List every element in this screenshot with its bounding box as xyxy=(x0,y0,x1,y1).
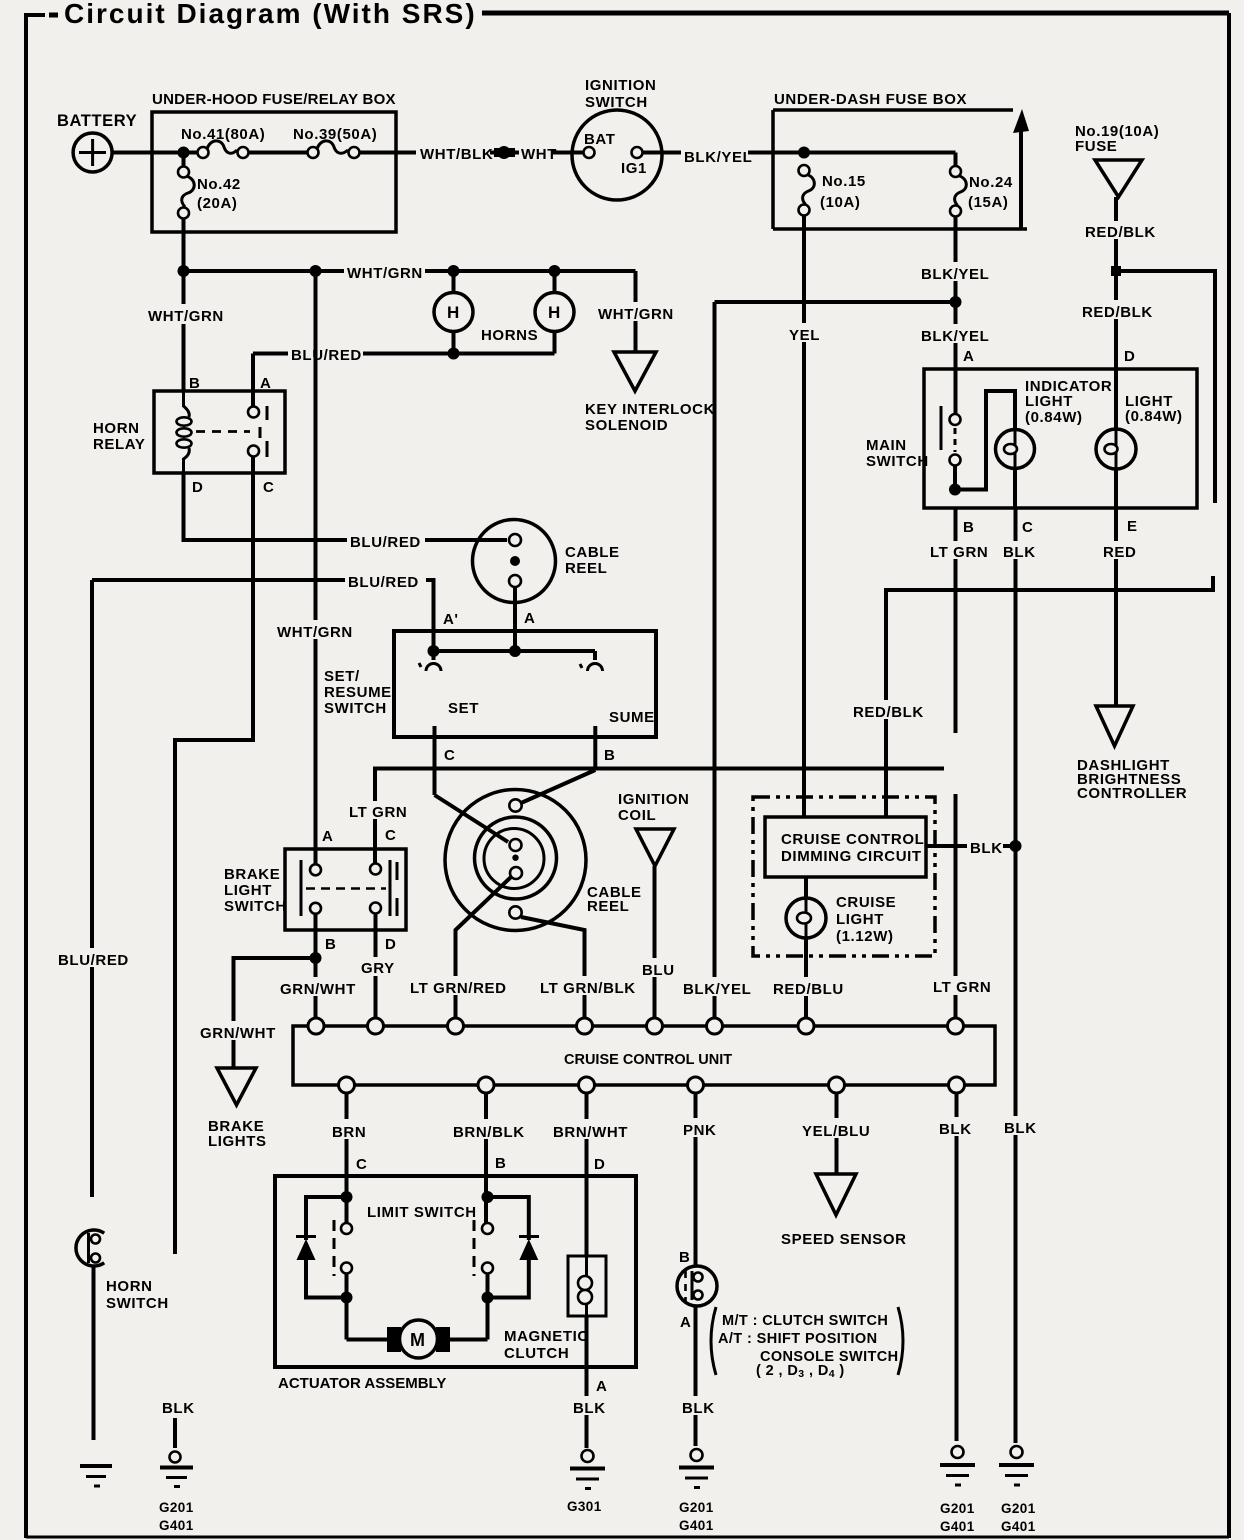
wire clutch down to G301 xyxy=(585,1316,589,1448)
svg-text:HORNS: HORNS xyxy=(481,327,538,344)
label BLK/YEL xyxy=(918,262,991,283)
svg-text:REEL: REEL xyxy=(587,898,629,915)
svg-text:No.41(80A): No.41(80A) xyxy=(181,126,265,143)
brake switch bars xyxy=(300,860,303,916)
wire LT GRN bus row xyxy=(375,769,944,865)
svg-text:PNK: PNK xyxy=(683,1122,716,1139)
label WHT/GRN xyxy=(344,261,425,282)
svg-text:BLU/RED: BLU/RED xyxy=(348,574,419,591)
svg-text:SWITCH: SWITCH xyxy=(106,1295,169,1312)
svg-text:WHT/GRN: WHT/GRN xyxy=(277,624,353,641)
label LT GRN xyxy=(930,976,991,996)
svg-text:B: B xyxy=(963,519,974,536)
wire up to contact2 node xyxy=(486,1273,490,1340)
svg-text:RED/BLK: RED/BLK xyxy=(1085,224,1156,241)
svg-text:B: B xyxy=(495,1155,506,1172)
svg-text:C: C xyxy=(1022,519,1033,536)
wire fuse 42 down to WHT/GRN node xyxy=(182,218,186,271)
svg-text:CRUISE: CRUISE xyxy=(836,894,896,911)
svg-text:WHT/GRN: WHT/GRN xyxy=(598,306,674,323)
wire coil stubs xyxy=(182,391,185,407)
battery xyxy=(57,112,137,172)
label BLK xyxy=(1000,541,1043,561)
wire horn relay C stub xyxy=(251,456,255,473)
label BLU/RED xyxy=(347,530,425,551)
wire horn relay D down, BLU/RED to cable reel xyxy=(184,473,508,540)
wire BLK/YEL down to cruise unit xyxy=(713,302,717,1019)
svg-text:REEL: REEL xyxy=(565,560,607,577)
cruise control unit box xyxy=(293,1026,995,1085)
unit top connector BLK/YEL xyxy=(707,1018,723,1034)
svg-text:FUSE: FUSE xyxy=(1075,138,1117,155)
wire horn switch to ground xyxy=(92,1266,96,1440)
unit bottom connector YEL/BLU xyxy=(829,1077,845,1093)
wire LT GRN main switch B down to cruise unit xyxy=(954,508,958,733)
svg-text:B: B xyxy=(679,1249,690,1266)
node junction BLK/YEL / fuse 15 xyxy=(798,147,810,159)
cruise control dimming circuit inner box xyxy=(765,817,926,877)
label LT GRN xyxy=(347,801,407,821)
label BLU/RED xyxy=(345,570,426,591)
horn 2 xyxy=(535,293,574,332)
svg-text:G201: G201 xyxy=(159,1500,194,1515)
horn relay dashed link xyxy=(196,430,250,433)
wire BLU/RED left drop to horn switch xyxy=(90,580,94,1197)
svg-text:G401: G401 xyxy=(940,1519,975,1534)
set/resume switch box xyxy=(324,631,656,737)
page border right xyxy=(1227,13,1231,1538)
main switch box xyxy=(866,369,1197,508)
ignition coil xyxy=(618,791,689,866)
svg-text:RED/BLK: RED/BLK xyxy=(853,704,924,721)
svg-text:A: A xyxy=(260,375,271,392)
svg-text:D: D xyxy=(594,1156,605,1173)
horn switch xyxy=(76,1230,169,1312)
svg-text:HORN: HORN xyxy=(106,1278,153,1295)
wire brake B down xyxy=(314,914,318,1020)
label RED xyxy=(1100,541,1136,561)
diode 2 branch xyxy=(488,1197,529,1240)
fuse No.42(20A) vertical xyxy=(178,153,241,219)
label BLK/YEL xyxy=(680,977,751,998)
wire battery to under-hood box xyxy=(112,151,152,155)
svg-text:SET/: SET/ xyxy=(324,668,360,685)
label BRN/BLK xyxy=(450,1119,525,1141)
svg-text:BLK/YEL: BLK/YEL xyxy=(921,266,989,283)
svg-text:LT GRN: LT GRN xyxy=(930,544,988,561)
label BLK xyxy=(967,836,1003,857)
wire BLU/RED horn bottom bus xyxy=(253,352,555,356)
unit top connector LT GRN xyxy=(948,1018,964,1034)
ground G201/G401 main switch BLK xyxy=(999,1446,1036,1534)
svg-text:G401: G401 xyxy=(1001,1519,1036,1534)
diode D1 xyxy=(296,1237,316,1261)
wire BRN/BLK to actuator xyxy=(484,1092,488,1197)
svg-text:A/T : SHIFT POSITION: A/T : SHIFT POSITION xyxy=(718,1331,877,1347)
wire PNK to clutch switch xyxy=(694,1092,698,1266)
wire BLU/RED row to set/resume A' xyxy=(92,580,434,651)
node junction horn1 xyxy=(448,265,460,277)
unit bottom connector BRN/WHT xyxy=(579,1077,595,1093)
label BLK xyxy=(1001,1116,1039,1137)
wire WHT/GRN key interlock drop xyxy=(634,271,638,352)
label WHT/GRN xyxy=(595,302,674,323)
wire light bulb bottom to E xyxy=(1114,469,1118,706)
svg-text:LIGHT: LIGHT xyxy=(1025,393,1073,410)
magnetic clutch coil xyxy=(504,1256,606,1362)
svg-text:G401: G401 xyxy=(679,1518,714,1533)
svg-text:SPEED SENSOR: SPEED SENSOR xyxy=(781,1231,907,1248)
unit bottom connector BLK xyxy=(949,1077,965,1093)
label GRN/WHT xyxy=(197,1021,276,1042)
under-hood fuse/relay box xyxy=(152,91,396,232)
wire to fuse 24 xyxy=(804,151,956,155)
svg-text:IGNITION: IGNITION xyxy=(585,77,656,94)
node junction at fuse42 wire xyxy=(178,265,190,277)
ground horn switch xyxy=(80,1466,112,1486)
fuse No.19(10A) xyxy=(1075,123,1159,197)
label BLK/YEL xyxy=(681,145,752,166)
main switch contact A xyxy=(950,414,961,425)
svg-text:A: A xyxy=(596,1378,607,1395)
node junction A' xyxy=(428,645,440,657)
wire WHT/GRN horn bus xyxy=(184,269,636,273)
brake lights triangle xyxy=(208,1068,267,1150)
wire fuse24 BLK/YEL down to main switch A xyxy=(954,216,958,419)
cable reel lower xyxy=(445,790,642,931)
node junction BLK/YEL branch xyxy=(950,296,962,308)
wire set C pin xyxy=(433,726,437,795)
svg-text:No.24: No.24 xyxy=(969,174,1013,191)
brake switch contacts xyxy=(310,864,321,875)
dashlight brightness controller xyxy=(1077,706,1187,802)
svg-text:CRUISE CONTROL UNIT: CRUISE CONTROL UNIT xyxy=(564,1052,732,1068)
node junction brake B xyxy=(310,952,322,964)
horn 1 xyxy=(434,293,473,332)
limit switch contact 2 xyxy=(474,1220,493,1276)
horn relay coil xyxy=(177,406,192,459)
svg-text:RELAY: RELAY xyxy=(93,436,145,453)
label BLK xyxy=(159,1396,196,1417)
svg-text:WHT/GRN: WHT/GRN xyxy=(347,265,423,282)
svg-text:HORN: HORN xyxy=(93,420,140,437)
node junction BRN/BLK xyxy=(482,1191,494,1203)
svg-text:BLK/YEL: BLK/YEL xyxy=(684,149,752,166)
svg-text:BLK/YEL: BLK/YEL xyxy=(683,981,751,998)
svg-text:D: D xyxy=(1124,348,1135,365)
svg-text:SET: SET xyxy=(448,700,479,717)
svg-text:BAT: BAT xyxy=(584,131,616,148)
wire horn relay C down to ground leg xyxy=(175,473,253,1254)
svg-text:SOLENOID: SOLENOID xyxy=(585,417,668,434)
wire diagonal C to reel xyxy=(435,795,509,842)
svg-text:ACTUATOR ASSEMBLY: ACTUATOR ASSEMBLY xyxy=(278,1375,446,1392)
svg-text:GRN/WHT: GRN/WHT xyxy=(200,1025,276,1042)
unit bottom connector BRN/BLK xyxy=(478,1077,494,1093)
label LT GRN/RED xyxy=(407,976,507,997)
svg-text:G301: G301 xyxy=(567,1499,602,1514)
svg-text:A': A' xyxy=(443,611,459,628)
wire to motor xyxy=(347,1338,391,1342)
svg-text:GRY: GRY xyxy=(361,960,395,977)
wire horn2 stubs xyxy=(553,271,557,294)
svg-text:LT GRN: LT GRN xyxy=(933,979,991,996)
label BLK xyxy=(936,1117,976,1138)
svg-text:C: C xyxy=(356,1156,367,1173)
svg-text:H: H xyxy=(548,303,561,322)
label YEL xyxy=(787,323,822,344)
unit top connector GRN/WHT xyxy=(308,1018,324,1034)
svg-text:A: A xyxy=(963,348,974,365)
svg-text:UNDER-DASH FUSE BOX: UNDER-DASH FUSE BOX xyxy=(774,91,967,108)
svg-text:CRUISE CONTROL: CRUISE CONTROL xyxy=(781,831,924,848)
svg-text:KEY INTERLOCK: KEY INTERLOCK xyxy=(585,401,715,418)
label BRN xyxy=(329,1119,372,1141)
wire RED/BLU cruise light to unit xyxy=(804,938,808,1019)
svg-text:LT GRN/BLK: LT GRN/BLK xyxy=(540,980,636,997)
wire BRN to actuator xyxy=(345,1092,349,1226)
label BLK xyxy=(679,1396,719,1417)
label RED/BLU xyxy=(770,977,853,998)
key interlock solenoid xyxy=(585,352,715,434)
svg-text:WHT/BLK: WHT/BLK xyxy=(420,146,493,163)
wire horn1 stubs xyxy=(452,271,456,294)
svg-text:G401: G401 xyxy=(159,1518,194,1533)
wire main feed inside box xyxy=(152,151,203,155)
fuse No.39(50A) xyxy=(293,126,377,158)
node junction battery feed / fuse 42 xyxy=(178,147,190,159)
diode 1 branch xyxy=(306,1197,347,1240)
title rule xyxy=(482,11,1229,16)
svg-text:A: A xyxy=(524,610,535,627)
label LT GRN/BLK xyxy=(537,976,636,997)
label LT GRN xyxy=(928,541,988,561)
speed sensor xyxy=(781,1174,907,1248)
wire GRN/WHT to brake lights xyxy=(234,958,316,1068)
label RED/BLK xyxy=(1079,300,1153,321)
wire stub to ground xyxy=(173,1418,177,1448)
label BRN/WHT xyxy=(550,1119,628,1141)
wire cable reel lower terminal to A xyxy=(513,587,517,651)
svg-text:MAGNETIC: MAGNETIC xyxy=(504,1328,589,1345)
wire branch right and down xyxy=(1116,271,1215,503)
svg-text:IG1: IG1 xyxy=(621,160,647,177)
wire indicator bulb down xyxy=(1013,469,1017,509)
wire set/resume internal bus xyxy=(434,649,596,653)
limit switch contact 1 xyxy=(334,1220,352,1276)
label RED/BLK xyxy=(1082,221,1156,241)
diode D2 xyxy=(519,1237,539,1261)
svg-text:DIMMING CIRCUIT: DIMMING CIRCUIT xyxy=(781,848,922,865)
motor M xyxy=(387,1320,450,1358)
wire jog to indicator bulb xyxy=(955,391,1015,490)
svg-text:E: E xyxy=(1127,518,1138,535)
wire fuse15 YEL down to dimming circuit xyxy=(802,215,806,817)
svg-text:BLK: BLK xyxy=(939,1121,972,1138)
svg-text:(1.12W): (1.12W) xyxy=(836,928,894,945)
svg-text:RESUME: RESUME xyxy=(324,684,392,701)
svg-text:M/T : CLUTCH SWITCH: M/T : CLUTCH SWITCH xyxy=(722,1313,888,1329)
horn relay xyxy=(93,391,285,473)
unit top connector BLU xyxy=(647,1018,663,1034)
svg-text:BATTERY: BATTERY xyxy=(57,112,137,130)
svg-text:(20A): (20A) xyxy=(197,195,238,212)
label WHT/BLK xyxy=(416,144,493,163)
clutch switch xyxy=(677,1266,717,1306)
label GRY xyxy=(358,957,395,977)
ground G201/G401 horn relay xyxy=(159,1452,194,1534)
node junction horn1 bottom xyxy=(448,348,460,360)
unit bottom connector BRN xyxy=(339,1077,355,1093)
main switch contact bar xyxy=(940,406,943,450)
cable reel upper xyxy=(473,520,620,603)
connector symbol xyxy=(494,148,515,157)
wire BLK main switch C down xyxy=(1014,508,1018,1443)
cruise control dimming circuit dashed box xyxy=(753,797,935,956)
svg-text:IGNITION: IGNITION xyxy=(618,791,689,808)
svg-text:No.42: No.42 xyxy=(197,176,241,193)
horn relay contact C xyxy=(248,446,259,457)
svg-text:BLU/RED: BLU/RED xyxy=(58,952,129,969)
wire BLK from dimming circuit xyxy=(926,844,1016,848)
brake light switch box xyxy=(224,849,406,930)
unit top connector LT GRN/RED xyxy=(448,1018,464,1034)
svg-text:BLU: BLU xyxy=(642,962,675,979)
svg-text:GRN/WHT: GRN/WHT xyxy=(280,981,356,998)
node junction motor left xyxy=(341,1292,353,1304)
brake switch dashed link xyxy=(306,887,386,890)
resume contact xyxy=(580,651,603,671)
node junction RED/BLK branch (square) xyxy=(1111,266,1121,276)
svg-text:( 2 , D3 , D4 ): ( 2 , D3 , D4 ) xyxy=(756,1363,845,1380)
page border bottom xyxy=(26,1536,1229,1539)
svg-text:BLK: BLK xyxy=(1003,544,1036,561)
wire light bulb top xyxy=(1114,369,1118,429)
unit top connector RED/BLU xyxy=(798,1018,814,1034)
wire resume B pin xyxy=(593,726,597,770)
svg-text:UNDER-HOOD FUSE/RELAY BOX: UNDER-HOOD FUSE/RELAY BOX xyxy=(152,91,396,108)
svg-text:BRN/BLK: BRN/BLK xyxy=(453,1124,525,1141)
svg-text:D: D xyxy=(385,936,396,953)
fuse No.41(80A) xyxy=(181,126,265,158)
node junction horn2 xyxy=(549,265,561,277)
indicator light bulb xyxy=(996,378,1113,469)
wire BRN/WHT to magnetic clutch xyxy=(585,1092,589,1256)
svg-text:G201: G201 xyxy=(1001,1501,1036,1516)
wire BRN/BLK into contact2 xyxy=(484,1197,488,1224)
svg-text:BLK: BLK xyxy=(573,1400,606,1417)
label BLK/YEL xyxy=(918,324,991,345)
svg-text:BLU/RED: BLU/RED xyxy=(350,534,421,551)
svg-text:M: M xyxy=(410,1330,426,1350)
wire BLU ignition coil to cruise unit xyxy=(653,866,657,1019)
svg-text:LIMIT SWITCH: LIMIT SWITCH xyxy=(367,1204,477,1221)
svg-text:BLK: BLK xyxy=(162,1400,195,1417)
svg-text:B: B xyxy=(325,936,336,953)
svg-text:C: C xyxy=(263,479,274,496)
wire diagonal B to reel xyxy=(521,770,595,803)
page border left xyxy=(24,13,28,1538)
wire cruise light top xyxy=(804,877,808,898)
unit top connector GRY xyxy=(368,1018,384,1034)
svg-text:B: B xyxy=(604,747,615,764)
label WHT/GRN xyxy=(274,620,356,641)
svg-text:C: C xyxy=(385,827,396,844)
svg-text:LIGHTS: LIGHTS xyxy=(208,1133,267,1150)
label RED/BLK xyxy=(850,700,924,721)
svg-text:BLK: BLK xyxy=(970,840,1003,857)
cruise light bulb xyxy=(786,894,896,945)
svg-text:(10A): (10A) xyxy=(820,194,861,211)
set contact xyxy=(419,651,441,671)
svg-text:BLK/YEL: BLK/YEL xyxy=(921,328,989,345)
svg-text:CABLE: CABLE xyxy=(565,544,620,561)
svg-text:BLU/RED: BLU/RED xyxy=(291,347,362,364)
label YEL/BLU xyxy=(799,1118,871,1140)
wire diagonal reel to LT GRN/BLK xyxy=(521,917,585,1019)
node junction switch output xyxy=(949,484,961,496)
wire WHT/GRN down to brake switch A xyxy=(314,271,318,864)
label PNK xyxy=(680,1118,717,1139)
ignition switch xyxy=(572,77,662,200)
svg-text:COIL: COIL xyxy=(618,807,656,824)
main switch contact dashes xyxy=(954,428,957,452)
wire BLU/RED down to horn relay A xyxy=(251,354,255,407)
label BLK xyxy=(570,1396,611,1417)
svg-text:SWITCH: SWITCH xyxy=(324,700,387,717)
svg-text:A: A xyxy=(680,1314,691,1331)
wire contact1 to motor node xyxy=(345,1273,349,1340)
under-dash fuse box xyxy=(773,91,1029,229)
svg-text:A: A xyxy=(322,828,333,845)
light bulb (0.84W) xyxy=(1096,393,1183,469)
svg-text:G201: G201 xyxy=(940,1501,975,1516)
svg-text:RED/BLK: RED/BLK xyxy=(1082,304,1153,321)
note M/T A/T xyxy=(711,1307,903,1380)
unit top connector LT GRN/BLK xyxy=(577,1018,593,1034)
wire RED/BLK from fuse 19 xyxy=(1114,197,1118,429)
ground G201/G401 unit xyxy=(940,1446,975,1534)
node junction motor right xyxy=(482,1292,494,1304)
wire diode2 down xyxy=(488,1258,529,1298)
ground G201/G401 clutch switch xyxy=(679,1449,714,1533)
node junction A xyxy=(509,645,521,657)
label WHT xyxy=(519,144,557,163)
svg-text:SWITCH: SWITCH xyxy=(866,453,929,470)
fuse No.24(15A) xyxy=(950,166,1013,217)
svg-text:RED/BLU: RED/BLU xyxy=(773,981,844,998)
svg-text:(0.84W): (0.84W) xyxy=(1025,409,1083,426)
svg-text:SUME: SUME xyxy=(609,709,655,726)
unit bottom connector PNK xyxy=(688,1077,704,1093)
label WHT/GRN xyxy=(146,304,224,325)
svg-text:LIGHT: LIGHT xyxy=(836,911,884,928)
wire contact to node xyxy=(953,465,957,492)
label BLU xyxy=(640,958,675,979)
svg-text:No.15: No.15 xyxy=(822,173,866,190)
svg-text:D: D xyxy=(192,479,203,496)
svg-text:SWITCH: SWITCH xyxy=(224,898,287,915)
node junction BRN xyxy=(341,1191,353,1203)
actuator assembly box xyxy=(275,1176,636,1392)
wire diode1 down xyxy=(306,1258,347,1298)
svg-text:(15A): (15A) xyxy=(968,194,1009,211)
svg-text:BLK: BLK xyxy=(682,1400,715,1417)
wire bus RED/BLK row xyxy=(886,576,1213,817)
svg-text:C: C xyxy=(444,747,455,764)
horn relay contact A xyxy=(248,407,259,418)
svg-text:BLK: BLK xyxy=(1004,1120,1037,1137)
